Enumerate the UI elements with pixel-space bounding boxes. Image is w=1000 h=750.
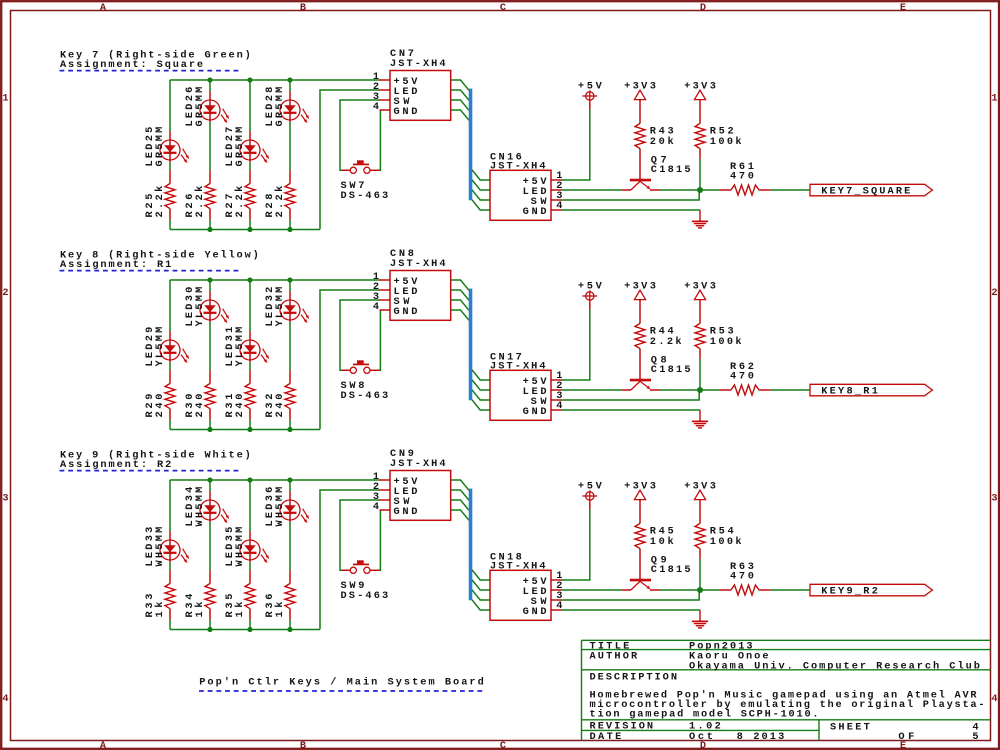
wire LED column 250 xyxy=(249,80,251,230)
resistor R53 xyxy=(695,323,742,359)
wire SW net to pin 3 xyxy=(340,300,380,370)
svg-text:3: 3 xyxy=(991,492,997,504)
svg-text:A: A xyxy=(100,740,107,750)
net flag KEY7_SQUARE xyxy=(810,184,932,197)
svg-text:SHEET: SHEET xyxy=(830,721,870,733)
wire LED net left of transistor xyxy=(562,389,622,391)
junction xyxy=(207,427,212,432)
svg-text:B: B xyxy=(300,740,306,750)
svg-text:Assignment: R2: Assignment: R2 xyxy=(60,459,171,471)
section header Key 9 (Right-side White) xyxy=(60,449,251,471)
supply +3V3 symbol xyxy=(624,280,656,323)
svg-text:Okayama Univ. Computer Researc: Okayama Univ. Computer Research Club xyxy=(689,661,980,673)
wire LED column 170 xyxy=(169,480,171,630)
wire LED net left of transistor xyxy=(562,189,622,191)
wire pullup to junction xyxy=(699,559,701,590)
supply +5V symbol xyxy=(578,80,603,109)
junction xyxy=(287,77,292,82)
wire LED column 210 xyxy=(209,280,211,430)
resistor R32 xyxy=(264,370,295,420)
svg-text:WH5MM: WH5MM xyxy=(234,527,246,567)
resistor R34 xyxy=(184,570,215,620)
junction xyxy=(207,227,212,232)
connector CN17 JST-XH4 xyxy=(490,351,562,420)
LED LED31 xyxy=(224,327,269,367)
switch SW7 DS-463 xyxy=(341,160,389,202)
svg-text:4: 4 xyxy=(373,501,379,513)
LED LED33 xyxy=(144,527,189,567)
svg-text:WH5MM: WH5MM xyxy=(154,527,166,567)
junction xyxy=(287,477,292,482)
wire emitter to junction xyxy=(660,189,720,191)
svg-text:C: C xyxy=(500,2,506,14)
supply +5V symbol xyxy=(578,480,603,509)
supply +3V3 symbol xyxy=(624,80,656,123)
junction xyxy=(247,277,252,282)
wire switch to pin 4 xyxy=(373,510,380,570)
wire GND bottom rail xyxy=(170,229,320,231)
svg-text:GND: GND xyxy=(523,606,547,618)
wire LED net to pin 2 xyxy=(320,290,380,430)
resistor R35 xyxy=(224,570,255,620)
svg-text:JST-XH4: JST-XH4 xyxy=(390,458,446,470)
svg-text:KEY7_SQUARE: KEY7_SQUARE xyxy=(821,186,910,198)
svg-text:WH5MM: WH5MM xyxy=(194,487,206,527)
resistor R33 xyxy=(144,570,175,620)
connector CN8 JST-XH4 xyxy=(373,248,451,320)
junction xyxy=(207,477,212,482)
wire LED column 290 xyxy=(289,80,291,230)
dashed annotation underline xyxy=(199,690,485,692)
junction xyxy=(207,277,212,282)
svg-text:YL5MM: YL5MM xyxy=(154,327,166,367)
wire LED column 170 xyxy=(169,80,171,230)
wire LED column 210 xyxy=(209,480,211,630)
svg-text:JST-XH4: JST-XH4 xyxy=(390,58,446,70)
svg-text:GND: GND xyxy=(394,106,418,118)
svg-text:+5V: +5V xyxy=(578,480,603,492)
svg-text:5: 5 xyxy=(972,731,978,743)
wire pullup to junction xyxy=(699,359,701,390)
svg-text:A: A xyxy=(100,2,107,14)
svg-text:1: 1 xyxy=(2,92,8,104)
wire +5V top rail xyxy=(170,79,380,81)
wire GND net xyxy=(562,409,701,411)
svg-text:Pop'n Ctlr Keys / Main System: Pop'n Ctlr Keys / Main System Board xyxy=(199,677,484,689)
svg-text:KEY9_R2: KEY9_R2 xyxy=(821,586,878,598)
supply +3V3 symbol xyxy=(624,480,656,523)
svg-text:470: 470 xyxy=(730,171,754,183)
supply +3V3 symbol xyxy=(684,80,716,123)
wire LED column 290 xyxy=(289,280,291,430)
svg-text:JST-XH4: JST-XH4 xyxy=(490,561,546,573)
svg-text:1: 1 xyxy=(991,92,997,104)
wire SW net xyxy=(562,190,700,200)
resistor R31 xyxy=(224,370,255,420)
resistor R26 xyxy=(184,170,215,220)
svg-text:240: 240 xyxy=(154,394,166,418)
wire to output flag xyxy=(771,589,811,591)
switch SW9 DS-463 xyxy=(341,560,389,602)
LED LED35 xyxy=(224,527,269,567)
wire LED column 210 xyxy=(209,80,211,230)
wire GND bottom rail xyxy=(170,629,320,631)
resistor R54 xyxy=(695,523,742,559)
connector CN16 JST-XH4 xyxy=(490,151,562,220)
supply +5V symbol xyxy=(578,280,603,309)
resistor R62 xyxy=(720,361,771,395)
junction xyxy=(207,77,212,82)
wire GND net xyxy=(562,209,701,211)
svg-text:DESCRIPTION: DESCRIPTION xyxy=(590,671,678,683)
wire SW net to pin 3 xyxy=(340,500,380,570)
svg-text:JST-XH4: JST-XH4 xyxy=(490,361,546,373)
section header Key 8 (Right-side Yellow) xyxy=(60,249,259,271)
junction xyxy=(287,277,292,282)
ground symbol xyxy=(692,610,708,628)
wire LED net left of transistor xyxy=(562,589,622,591)
svg-text:YL5MM: YL5MM xyxy=(194,287,206,327)
LED LED25 xyxy=(144,127,189,167)
svg-text:WH5MM: WH5MM xyxy=(274,487,286,527)
junction xyxy=(247,477,252,482)
wire +5V to connector pin 1 xyxy=(562,510,590,581)
svg-text:GR5MM: GR5MM xyxy=(194,87,206,127)
resistor R30 xyxy=(184,370,215,420)
svg-text:20k: 20k xyxy=(650,136,674,148)
net flag KEY8_R1 xyxy=(810,384,932,397)
resistor R29 xyxy=(144,370,175,420)
svg-text:240: 240 xyxy=(274,394,286,418)
svg-text:GND: GND xyxy=(394,506,418,518)
svg-text:2: 2 xyxy=(2,287,8,299)
svg-text:+5V: +5V xyxy=(578,80,603,92)
svg-text:D: D xyxy=(700,2,706,14)
svg-text:tion gamepad model SCPH-1010.: tion gamepad model SCPH-1010. xyxy=(590,709,819,721)
LED LED32 xyxy=(264,287,309,327)
svg-text:2: 2 xyxy=(991,287,997,299)
resistor R45 xyxy=(635,523,674,579)
wire LED column 170 xyxy=(169,280,171,430)
resistor R27 xyxy=(224,170,255,220)
junction node xyxy=(697,387,703,393)
bus xyxy=(469,89,473,201)
wire to output flag xyxy=(771,189,811,191)
LED LED29 xyxy=(144,327,189,367)
svg-text:Assignment: R1: Assignment: R1 xyxy=(60,259,171,271)
LED LED27 xyxy=(224,127,269,167)
LED LED36 xyxy=(264,487,309,527)
bus xyxy=(469,289,473,401)
wire +5V to connector pin 1 xyxy=(562,110,590,181)
svg-text:470: 470 xyxy=(730,571,754,583)
LED LED26 xyxy=(184,87,229,127)
wire LED column 250 xyxy=(249,480,251,630)
LED LED30 xyxy=(184,287,229,327)
wire +5V top rail xyxy=(170,479,380,481)
bus xyxy=(469,489,473,601)
wire bus exit diagonals xyxy=(472,570,490,610)
wire SW net xyxy=(562,590,700,600)
dashed annotation underline xyxy=(60,270,241,272)
svg-text:4: 4 xyxy=(373,101,379,113)
net flag KEY9_R2 xyxy=(810,584,932,597)
transistor Q7 C1815 xyxy=(622,154,691,190)
svg-text:GR5MM: GR5MM xyxy=(154,127,166,167)
junction xyxy=(247,227,252,232)
svg-text:+5V: +5V xyxy=(578,280,603,292)
svg-text:JST-XH4: JST-XH4 xyxy=(390,258,446,270)
supply +3V3 symbol xyxy=(684,280,716,323)
sheet annotation xyxy=(199,677,484,689)
svg-text:C1815: C1815 xyxy=(651,164,691,176)
wire switch to pin 4 xyxy=(373,310,380,370)
junction xyxy=(287,227,292,232)
svg-text:YL5MM: YL5MM xyxy=(234,327,246,367)
resistor R63 xyxy=(720,561,771,595)
dashed annotation underline xyxy=(60,70,241,72)
ground symbol xyxy=(692,210,708,228)
transistor Q8 C1815 xyxy=(622,354,691,390)
svg-text:10k: 10k xyxy=(650,536,674,548)
transistor Q9 C1815 xyxy=(622,554,691,590)
wire bus exit diagonals xyxy=(472,370,490,410)
svg-text:4: 4 xyxy=(2,693,8,705)
svg-text:3: 3 xyxy=(2,492,8,504)
connector CN7 JST-XH4 xyxy=(373,48,451,120)
wire bus entry diagonals xyxy=(451,480,469,520)
resistor R61 xyxy=(720,161,771,195)
ground symbol xyxy=(692,410,708,428)
supply +3V3 symbol xyxy=(684,480,716,523)
wire SW net to pin 3 xyxy=(340,100,380,170)
svg-text:C: C xyxy=(500,740,506,750)
connector CN18 JST-XH4 xyxy=(490,551,562,620)
svg-text:GND: GND xyxy=(523,206,547,218)
wire LED net to pin 2 xyxy=(320,90,380,230)
svg-text:240: 240 xyxy=(234,394,246,418)
junction xyxy=(247,77,252,82)
svg-text:240: 240 xyxy=(194,394,206,418)
wire to output flag xyxy=(771,389,811,391)
wire bus entry diagonals xyxy=(451,80,469,120)
wire LED column 250 xyxy=(249,280,251,430)
svg-text:JST-XH4: JST-XH4 xyxy=(490,161,546,173)
switch SW8 DS-463 xyxy=(341,360,389,402)
junction xyxy=(247,627,252,632)
svg-text:KEY8_R1: KEY8_R1 xyxy=(821,386,878,398)
svg-text:470: 470 xyxy=(730,371,754,383)
wire +5V to connector pin 1 xyxy=(562,310,590,381)
junction xyxy=(287,627,292,632)
svg-text:Assignment: Square: Assignment: Square xyxy=(60,59,203,71)
wire bus exit diagonals xyxy=(472,170,490,210)
wire SW net xyxy=(562,390,700,400)
connector CN9 JST-XH4 xyxy=(373,448,451,520)
svg-text:E: E xyxy=(900,2,906,14)
dashed annotation underline xyxy=(60,470,241,472)
resistor R28 xyxy=(264,170,295,220)
svg-text:C1815: C1815 xyxy=(651,364,691,376)
resistor R44 xyxy=(635,323,682,379)
wire bus entry diagonals xyxy=(451,280,469,320)
resistor R43 xyxy=(635,123,674,179)
svg-text:B: B xyxy=(300,2,306,14)
junction xyxy=(287,427,292,432)
wire GND bottom rail xyxy=(170,429,320,431)
junction node xyxy=(697,587,703,593)
svg-text:GR5MM: GR5MM xyxy=(274,87,286,127)
svg-text:4: 4 xyxy=(373,301,379,313)
wire GND net xyxy=(562,609,701,611)
resistor R25 xyxy=(144,170,175,220)
svg-text:Oct: Oct xyxy=(689,731,713,743)
wire +5V top rail xyxy=(170,279,380,281)
svg-text:GND: GND xyxy=(523,406,547,418)
LED LED28 xyxy=(264,87,309,127)
junction xyxy=(247,427,252,432)
wire emitter to junction xyxy=(660,389,720,391)
wire LED net to pin 2 xyxy=(320,490,380,630)
resistor R36 xyxy=(264,570,295,620)
svg-text:4: 4 xyxy=(991,693,997,705)
LED LED34 xyxy=(184,487,229,527)
section header Key 7 (Right-side Green) xyxy=(60,49,251,71)
wire switch to pin 4 xyxy=(373,110,380,170)
svg-text:GR5MM: GR5MM xyxy=(234,127,246,167)
svg-text:YL5MM: YL5MM xyxy=(274,287,286,327)
wire pullup to junction xyxy=(699,159,701,190)
resistor R52 xyxy=(695,123,742,158)
svg-text:GND: GND xyxy=(394,306,418,318)
title block xyxy=(582,640,991,743)
junction xyxy=(207,627,212,632)
wire LED column 290 xyxy=(289,480,291,630)
wire emitter to junction xyxy=(660,589,720,591)
svg-text:C1815: C1815 xyxy=(651,564,691,576)
junction node xyxy=(697,187,703,193)
